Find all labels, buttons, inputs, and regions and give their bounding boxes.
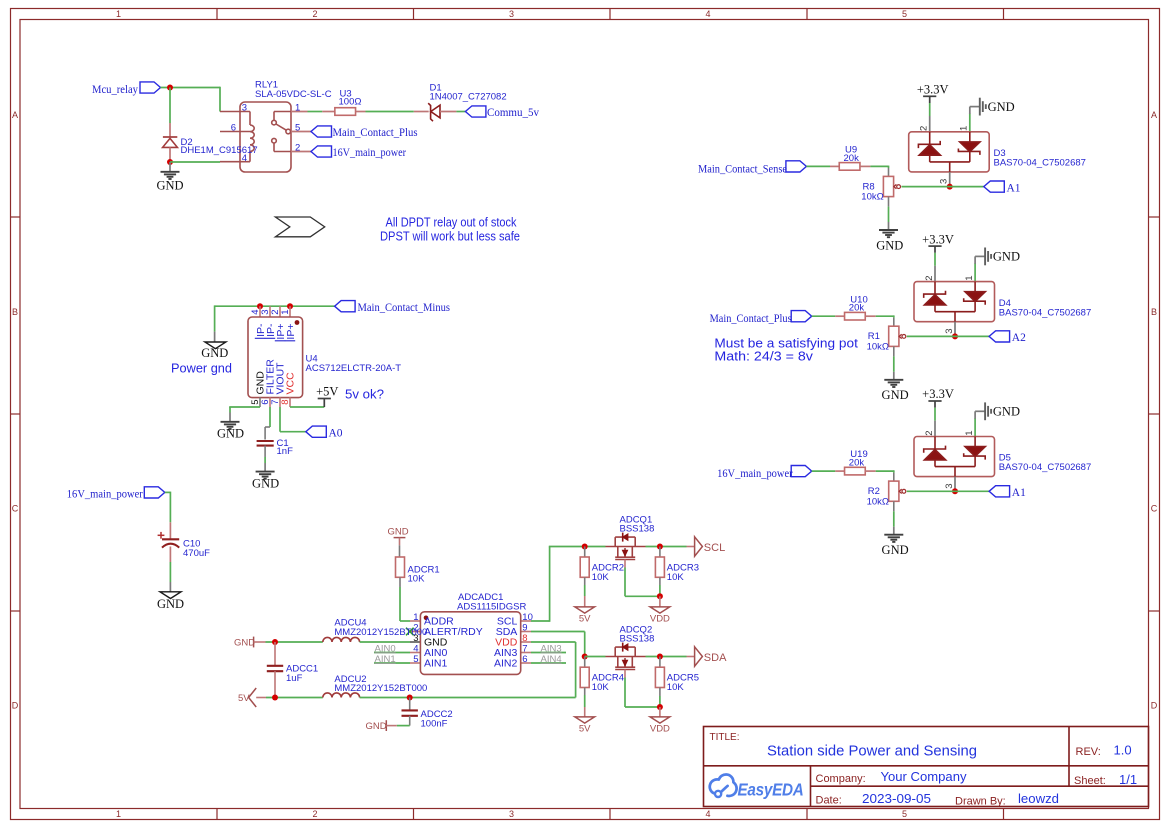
wire [870,165,888,167]
svg-text:5: 5 [902,9,907,19]
svg-text:DPST will work but less safe: DPST will work but less safe [380,228,520,243]
resistor ADCR2 [580,557,589,577]
svg-text:+3.3V: +3.3V [922,232,954,246]
wire pin5 to gnd [229,406,260,408]
gnd stub h [975,410,985,412]
svg-text:ADS1115IDGSR: ADS1115IDGSR [457,601,526,612]
svg-text:20k: 20k [849,458,865,469]
svg-text:GND: GND [234,637,255,648]
wire AIN4 [531,662,566,664]
junction at ADCR4 top [582,654,588,660]
wire down to power gnd [214,305,216,331]
resistor U9 [839,163,860,171]
ground below R2 [884,535,903,542]
svg-text:10K: 10K [408,573,426,584]
svg-text:5V: 5V [579,613,591,624]
wire down to D2 [169,88,171,124]
svg-text:AIN3: AIN3 [541,643,562,654]
wire pin1 to GND [974,418,976,436]
svg-text:10K: 10K [667,572,685,583]
svg-text:AIN1: AIN1 [424,658,448,670]
svg-text:C: C [1151,504,1158,514]
svg-text:2: 2 [312,809,317,819]
svg-text:TITLE:: TITLE: [710,732,740,743]
U19 left lead [835,470,844,472]
junction at Mcu_relay [167,85,173,91]
transistor ADCQ1 BSS138 [606,537,646,559]
net port 5V (left rail) [238,688,256,707]
potentiometer R1 [889,326,906,346]
wire pin9 out [531,631,585,633]
svg-text:1: 1 [413,612,418,623]
potentiometer R2 [889,481,906,501]
svg-text:B: B [12,307,18,317]
C10 top lead [169,522,171,539]
svg-text:5: 5 [413,654,418,665]
svg-text:IP+: IP+ [285,324,297,340]
svg-text:Sheet:: Sheet: [1074,775,1106,787]
svg-text:Main_Contact_Sense: Main_Contact_Sense [698,163,787,175]
svg-text:All DPDT relay out of stock: All DPDT relay out of stock [386,214,517,229]
port lead [256,697,266,699]
diode D5 BAS70-04 [914,437,995,477]
svg-text:GND: GND [156,179,183,193]
svg-text:B: B [1151,307,1157,317]
svg-text:2023-09-05: 2023-09-05 [862,791,931,806]
junction at ADCC1 bottom [272,695,278,701]
wire jog [265,426,270,428]
U19 right lead [865,470,875,472]
svg-text:8: 8 [522,633,527,644]
ADCR2 top lead [584,547,586,558]
ground below R8 [879,230,898,237]
svg-text:1: 1 [964,430,975,435]
pin 5 stub [259,397,261,407]
svg-text:1: 1 [116,809,121,819]
svg-text:8: 8 [280,399,291,404]
svg-text:20k: 20k [849,303,865,314]
ADCR1 bottom lead [399,577,401,587]
svg-text:ACS712ELCTR-20A-T: ACS712ELCTR-20A-T [306,363,402,374]
svg-text:BSS138: BSS138 [620,524,655,535]
power lead [584,596,586,607]
svg-text:BAS70-04_C7502687: BAS70-04_C7502687 [994,158,1086,169]
junction at pin 3 [947,184,953,190]
svg-text:BSS138: BSS138 [620,634,655,645]
wire pot to gnd [893,511,895,526]
svg-text:GND: GND [988,100,1015,114]
svg-text:GND: GND [388,527,409,538]
power 5V below ADCR4 [575,717,595,734]
ADCR3 top lead [659,547,661,558]
svg-text:GND: GND [157,597,184,611]
junction at ADCR3 top [657,544,663,550]
net flag 16V_main_power (C10) [144,487,165,498]
svg-text:+3.3V: +3.3V [917,83,949,97]
wire down to pot [893,315,895,317]
diode D4 BAS70-04 [914,282,995,322]
gnd stub [974,256,976,263]
ADCR1 top lead [399,545,401,557]
wire ADCR1 to pin1 [399,587,401,621]
ground GND at D2 [161,172,180,179]
resistor U10 [845,312,866,320]
svg-text:1: 1 [116,9,121,19]
svg-text:3: 3 [509,809,514,819]
wire pin1 to GND [974,263,976,281]
pin 2 lead [291,151,311,153]
wire 5V rail [266,697,323,699]
ground flag GND (D3) [980,98,1015,116]
svg-text:2: 2 [919,126,930,131]
svg-text:3: 3 [242,103,247,114]
svg-text:GND: GND [252,477,279,491]
junction at D2 cathode [167,159,173,165]
svg-text:9: 9 [522,622,527,633]
wire down to pin 3 [219,87,221,112]
svg-text:16V_main_power: 16V_main_power [67,488,143,500]
diode D2 [163,123,178,162]
svg-text:1N4007_C727082: 1N4007_C727082 [430,92,507,103]
junction gate/ADCR3/VDD [657,593,663,599]
wire U3 to D1 [366,111,414,113]
port lead [399,538,401,546]
ground Power gnd [205,342,226,349]
wire AIN1 [374,662,410,664]
ADCR5 bottom lead [659,688,661,697]
net flag 16V_main_power [311,146,332,157]
port lead [687,656,695,658]
wire down to pot [893,470,895,472]
wire pin7 down [279,407,281,432]
wire down to SDA row [584,632,586,657]
resistor U3 [335,108,356,116]
svg-text:Date:: Date: [816,795,842,807]
wire GND rail [266,641,323,643]
gnd stub h [970,106,980,108]
gnd stub [893,372,895,380]
pin 3 stub [954,322,956,337]
power stub [934,246,936,253]
junction at pin 3 [952,333,958,339]
wire ADCU4 to pin3 [360,641,410,643]
C1 bottom lead [264,446,266,457]
svg-text:1uF: 1uF [286,673,303,684]
svg-text:1.0: 1.0 [1114,743,1132,758]
pin 2 stub [934,421,936,437]
pot top stub [888,168,890,176]
ground at C10 [160,592,181,599]
power lead [659,596,661,607]
U4 pin names bottom [255,359,297,395]
gnd stub [264,463,266,471]
wire AIN3 [531,652,566,654]
U10 left lead [835,315,844,317]
junction pin1 [287,303,293,309]
svg-text:BAS70-04_C7502687: BAS70-04_C7502687 [999,462,1091,473]
EasyEDA logo [710,774,804,799]
svg-text:6: 6 [522,654,527,665]
junction at pin 3 [952,488,958,494]
power +5V [316,385,338,399]
C10 plus sign [158,532,165,539]
junction at ADCC2 [407,695,413,701]
resistor ADCR3 [655,557,664,577]
wire D2 to pin 4 [170,161,220,163]
C10 bottom lead [169,547,171,563]
port lead [386,725,397,727]
svg-text:100Ω: 100Ω [339,96,362,107]
svg-text:10kΩ: 10kΩ [867,496,889,507]
wire to U9 [806,165,830,167]
wire [229,407,231,413]
svg-text:AIN1: AIN1 [375,654,396,665]
junction pin4 [257,303,263,309]
ADCR4 bottom lead [584,688,586,696]
svg-text:10kΩ: 10kΩ [867,341,889,352]
wire to A2 [907,335,989,337]
U4 top pin numbers [250,310,291,315]
pin 3 stub [949,172,951,187]
power lead [659,707,661,717]
D1 right lead [440,111,456,113]
svg-text:GND: GND [882,388,909,402]
svg-text:SLA-05VDC-SL-C: SLA-05VDC-SL-C [255,89,332,100]
pot bottom stub [893,501,895,511]
transistor ADCQ2 BSS138 [606,647,646,669]
wire pin10 out [531,620,550,622]
IC ADCADC1 ADS1115IDGSR [420,612,520,675]
svg-text:5: 5 [902,809,907,819]
svg-text:REV:: REV: [1076,746,1101,758]
wire SDA row right [646,656,687,658]
svg-text:GND: GND [201,346,228,360]
svg-text:Mcu_relay: Mcu_relay [92,84,138,96]
svg-text:6: 6 [231,123,236,134]
wire pot to gnd [888,207,890,222]
C1 top lead [264,427,266,440]
gnd stub [169,582,171,592]
net flag Commu_5v [465,106,486,117]
svg-text:VDD: VDD [650,723,670,734]
capacitor C1 [257,441,274,446]
junction gate/ADCR5/VDD [657,704,663,710]
resistor ADCR5 [655,667,664,687]
ADCR2 bottom lead [584,577,586,585]
power stub [929,96,931,103]
svg-text:Company:: Company: [816,773,866,785]
ground flag GND (D5) [985,402,1020,420]
svg-text:A1: A1 [1007,182,1021,194]
ground flag GND (D4) [985,248,1020,266]
wire [400,620,410,622]
wire SCL row right [646,546,687,548]
svg-text:GND: GND [366,721,387,732]
pin 8 stub [289,397,291,407]
svg-text:Main_Contact_Minus: Main_Contact_Minus [358,302,451,314]
net port GND (top) [388,527,409,538]
pin 5 lead [291,131,311,133]
wire to A1 [902,186,984,188]
wire 5V rail to VDD pin [360,697,576,699]
pin 6 stub [269,397,271,407]
net flag Main_Contact_Minus [335,301,356,312]
svg-text:EasyEDA: EasyEDA [738,780,804,800]
gnd stub h [975,255,985,257]
wire Mcu_relay to relay [161,87,221,89]
wire to U19 [812,470,836,472]
U9 left lead [830,165,839,167]
svg-text:MMZ2012Y152BT000: MMZ2012Y152BT000 [334,627,427,638]
svg-text:BAS70-04_C7502687: BAS70-04_C7502687 [999,307,1091,318]
wire gate to pull-up [625,595,660,597]
svg-text:A1: A1 [1012,487,1026,499]
svg-text:1: 1 [959,126,970,131]
U10 right lead [865,315,875,317]
net port GND (ADCC2) [366,720,387,732]
wire gate to pull-up [625,706,660,708]
svg-text:Power gnd: Power gnd [171,361,232,376]
ADCC2 bottom lead [409,716,411,726]
svg-text:GND: GND [217,426,244,440]
U9 right lead [860,165,870,167]
power +3.3V (D4) [922,232,954,246]
power VDD below ADCR3 [650,607,670,624]
IC pin names [424,616,518,670]
svg-text:Station side Power and Sensing: Station side Power and Sensing [767,742,977,759]
wire SCL row left [549,546,606,548]
diode D1 [428,103,440,121]
wire gate down [624,678,626,708]
wire +3.3V to pin2 [929,103,931,116]
wire pin1 to GND [969,114,971,132]
wire [165,491,171,493]
wire up to SCL row [549,547,551,622]
U4 top pin stubs [260,306,290,317]
pin numbers D4 [924,276,975,334]
svg-text:5V: 5V [579,723,591,734]
gnd stub [893,527,895,535]
net flag A2 [989,331,1010,342]
svg-text:16V_main_power: 16V_main_power [717,468,793,480]
svg-text:1/1: 1/1 [1119,772,1137,787]
ground below R1 [884,380,903,387]
wire to U10 [812,315,836,317]
svg-text:Your Company: Your Company [881,769,968,784]
svg-text:leowzd: leowzd [1018,791,1059,806]
svg-text:2: 2 [924,430,935,435]
pin 3 stub [954,477,956,492]
wire pot to gnd [893,356,895,371]
power +3.3V (D3) [917,83,949,97]
net flag A1 [984,181,1005,192]
wire [876,315,894,317]
wire gate down [624,568,626,597]
wire pin8 out [531,641,576,643]
svg-text:470uF: 470uF [183,548,210,559]
annotation chevron [275,217,324,237]
svg-text:3: 3 [944,329,955,334]
svg-text:A: A [12,110,18,120]
wire +3.3V to pin2 [934,408,936,421]
resistor U19 [845,467,866,475]
ADCR5 top lead [659,657,661,668]
svg-text:Main_Contact_Plus: Main_Contact_Plus [710,313,792,325]
svg-text:AIN4: AIN4 [541,654,562,665]
wire SDA row left [585,656,606,658]
capacitor ADCC1 [267,666,283,671]
power lead [584,707,586,717]
no-connect X on pin 2 [406,628,414,636]
svg-text:100nF: 100nF [421,719,448,730]
svg-text:7: 7 [522,643,527,654]
power stub [323,399,325,407]
svg-text:1nF: 1nF [277,446,294,457]
svg-text:D: D [1151,701,1158,711]
net port SDA [695,647,727,666]
ground at C1 [256,472,275,479]
svg-text:Commu_5v: Commu_5v [487,107,539,119]
wire [659,585,661,596]
pot bottom stub [888,197,890,207]
resistor ADCR1 [396,557,405,577]
svg-text:5v ok?: 5v ok? [345,386,384,401]
svg-text:2: 2 [312,9,317,19]
svg-text:Main_Contact_Plus: Main_Contact_Plus [333,127,418,139]
inductor ADCU4 [323,637,360,642]
svg-text:3: 3 [944,483,955,488]
gnd stub [214,332,216,342]
pin numbers D5 [924,430,975,488]
op-amp U4 body [248,317,303,398]
wire to GND [169,162,171,172]
junction at ADCC1 top [272,639,278,645]
svg-text:10K: 10K [592,682,610,693]
svg-text:16V_main_power: 16V_main_power [333,147,407,159]
wire pin1 to U3 [308,111,323,113]
net flag 16V_main_power [791,466,812,477]
svg-text:GND: GND [882,543,909,557]
ADCR4 top lead [584,657,586,668]
svg-text:AIN0: AIN0 [375,643,396,654]
svg-text:+3.3V: +3.3V [922,387,954,401]
svg-text:GND: GND [876,238,903,252]
inductor ADCU2 [323,693,360,698]
D1 left lead [414,111,429,113]
ground at U4 pin5 [221,422,240,429]
net flag Main_Contact_Sense [786,161,807,172]
gnd stub [974,411,976,418]
junction at ADCR5 top [657,654,663,660]
U4 pin names top [255,323,297,341]
wire down to C10 [169,492,171,523]
wire pin6 to C1 [269,407,271,427]
net port SCL [695,537,726,556]
net flag Main_Contact_Plus [791,311,812,322]
port lead [687,546,695,548]
ADCR3 bottom lead [659,577,661,585]
pin 2 stub [929,116,931,132]
title block frame [704,727,1149,807]
svg-text:1: 1 [964,276,975,281]
wire AIN0 [374,652,410,654]
wire [397,725,410,727]
gnd stub [969,107,971,114]
net flag Main_Contact_Plus [311,126,332,137]
wire D1 to Commu_5v [456,111,465,113]
svg-text:SDA: SDA [704,652,727,664]
svg-text:4: 4 [413,643,418,654]
